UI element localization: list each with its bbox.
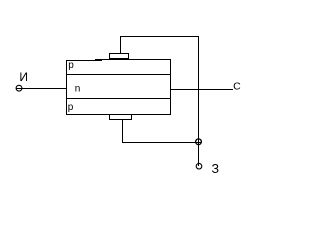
svg-text:З: З — [212, 162, 220, 176]
bottom gate electrode contact — [110, 115, 132, 120]
svg-text:С: С — [233, 80, 241, 92]
wire: source lead (left) — [16, 88, 66, 90]
transistor body left edge — [66, 60, 68, 115]
wire: bottom horizontal run to junction — [122, 142, 202, 144]
svg-text:n: n — [75, 83, 81, 94]
transistor body top edge (left segment) — [66, 60, 102, 62]
terminal circle З (gate) — [196, 163, 202, 169]
svg-text:И: И — [19, 70, 28, 84]
junction node on gate net — [196, 139, 202, 145]
p/n junction line (upper) — [66, 74, 171, 76]
transistor body top edge (right segment) — [95, 59, 171, 61]
svg-text:p: p — [68, 60, 74, 71]
wire: top horizontal run — [120, 36, 199, 38]
wire: bottom electrode drop — [122, 120, 124, 143]
wire: gate vertical drop — [198, 36, 200, 166]
wire: top electrode riser — [120, 36, 122, 53]
wire: drain lead (right) — [171, 89, 233, 91]
n/p junction line (lower) — [66, 98, 171, 100]
transistor body bottom edge — [66, 114, 171, 116]
terminal circle И (source) — [16, 85, 22, 91]
top gate electrode contact — [110, 54, 129, 59]
svg-text:p: p — [68, 102, 74, 113]
transistor body right edge — [170, 59, 172, 115]
